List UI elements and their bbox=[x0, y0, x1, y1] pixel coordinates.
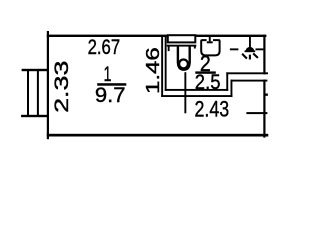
wire bottom wall bbox=[47, 134, 268, 137]
svg-text:2.43: 2.43 bbox=[195, 97, 230, 122]
sink tap bar bbox=[207, 41, 213, 43]
lamp base line bbox=[245, 50, 256, 52]
svg-text:2.5: 2.5 bbox=[195, 69, 221, 94]
window bottom jamb cap bbox=[21, 115, 47, 117]
svg-text:2.67: 2.67 bbox=[88, 35, 121, 59]
wire left wall bbox=[47, 31, 49, 139]
wire right wall upper segment bbox=[263, 35, 265, 75]
wall stub right of right wall bbox=[266, 94, 268, 96]
toilet shelf line bbox=[167, 45, 197, 47]
window glazing line outer bbox=[27, 70, 29, 116]
sink basin bbox=[201, 40, 219, 55]
lamp ray down-right bbox=[253, 53, 258, 58]
svg-text:9.7: 9.7 bbox=[95, 82, 126, 107]
wire duct step inner horizontal bbox=[226, 72, 268, 74]
wire top wall bbox=[47, 35, 267, 37]
window glazing line inner bbox=[37, 70, 39, 116]
lamp right dash bbox=[256, 48, 264, 50]
room label 1 underline bbox=[97, 83, 126, 86]
svg-text:1.46: 1.46 bbox=[142, 47, 163, 94]
svg-text:2.33: 2.33 bbox=[52, 61, 73, 113]
room label 2 underline bbox=[195, 71, 216, 73]
toilet drain circle bbox=[179, 60, 188, 69]
wire bathroom left wall outer line bbox=[161, 36, 163, 97]
wire duct step inner vertical bbox=[226, 72, 228, 91]
dimension tick right wall bbox=[246, 112, 267, 114]
wire bathroom bottom wall outer line bbox=[161, 95, 232, 97]
sink tap stem bbox=[209, 36, 211, 42]
lamp left dash bbox=[230, 48, 239, 50]
dimension extension line toilet bbox=[184, 72, 186, 113]
wire duct step outer vertical bbox=[231, 80, 233, 97]
lamp ray down bbox=[249, 55, 251, 60]
toilet bowl bbox=[178, 46, 190, 70]
toilet shelf left stub bbox=[168, 46, 170, 51]
wire right wall lower segment bbox=[263, 80, 265, 138]
toilet cistern bbox=[168, 35, 196, 42]
lamp ray down-left bbox=[242, 54, 247, 59]
toilet shelf right stub bbox=[194, 46, 196, 48]
lamp dome bbox=[246, 47, 255, 51]
lamp stem bbox=[249, 37, 251, 48]
window top jamb cap bbox=[22, 69, 48, 71]
wire bathroom bottom wall inner line bbox=[165, 89, 229, 91]
wire duct step outer horizontal bbox=[231, 80, 268, 82]
wire bathroom left wall inner line bbox=[165, 36, 167, 91]
